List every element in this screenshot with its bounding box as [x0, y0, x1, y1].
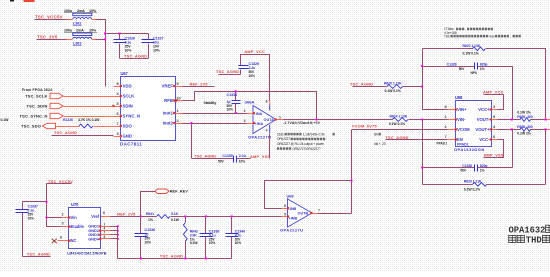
svg-text:8: 8 [104, 235, 106, 239]
inductor L363 [73, 33, 92, 36]
svg-text:U68: U68 [455, 95, 463, 100]
wire agnd [52, 135, 114, 137]
wire ampvcc underline [484, 94, 504, 96]
capacitor C1337 [22, 202, 24, 210]
svg-text:C1335: C1335 [222, 154, 232, 158]
pin 3 stub [114, 136, 121, 138]
resistor R629 [473, 182, 487, 186]
pin 7 [102, 234, 111, 236]
svg-text:EN: EN [457, 137, 463, 142]
wire AMP_VCC [241, 55, 270, 101]
svg-text:L363: L363 [73, 40, 82, 45]
svg-text:VOUT+: VOUT+ [475, 127, 490, 132]
wire V- to AMP_VSS [269, 134, 271, 159]
junction [316, 119, 318, 121]
svg-text:U69: U69 [287, 194, 295, 199]
pin [269, 100, 271, 102]
wire VOUT- [498, 119, 521, 121]
pin 8 [448, 109, 456, 111]
svg-text:820p: 820p [480, 62, 488, 66]
svg-text:Enable: Enable [71, 224, 85, 229]
svg-text:Stability: Stability [204, 101, 217, 105]
pin 7 [448, 139, 456, 141]
svg-text:AMP_VSS: AMP_VSS [250, 155, 270, 159]
wire c1328 left [423, 66, 475, 68]
pin [67, 39, 73, 41]
svg-text:0.1W 0.1%: 0.1W 0.1% [385, 89, 402, 93]
junction [140, 257, 142, 259]
svg-text:1: 1 [177, 109, 179, 113]
svg-text:PPAD1: PPAD1 [457, 142, 469, 146]
svg-text:VCC-: VCC- [479, 137, 490, 142]
svg-text:OPA2727/OPA2227?: OPA2727/OPA2227? [292, 147, 321, 151]
wire to agnd [191, 124, 193, 159]
svg-text:4.7K 1% 0.1W: 4.7K 1% 0.1W [78, 118, 100, 122]
port TSC_SDO [43, 123, 56, 128]
svg-text:1%: 1% [480, 67, 485, 71]
unconnected pin marker SDIN [112, 105, 114, 107]
pin 7 [114, 126, 121, 128]
wire VOUT+ [498, 129, 521, 131]
svg-text:5: 5 [493, 115, 495, 119]
inductor L362 [73, 13, 92, 16]
wire VOUT- edge [547, 119, 550, 121]
wire vcc+ [498, 95, 504, 110]
svg-text:LM4140CCM2.5/NOPB: LM4140CCM2.5/NOPB [67, 252, 107, 256]
resistor R641 [157, 215, 170, 219]
svg-text:GND: GND [123, 134, 133, 139]
regulator U70 box [69, 208, 101, 249]
wire agnd row [192, 158, 234, 160]
junction [421, 167, 423, 169]
pin 2 [448, 129, 456, 131]
svg-text:VOUT-: VOUT- [477, 117, 490, 122]
wire vcc5 label [47, 183, 72, 185]
pin 2 [247, 113, 254, 115]
svg-text:6: 6 [284, 204, 286, 208]
svg-text:Vin: Vin [71, 215, 78, 220]
svg-text:-1.7V&lt;VDac&lt;+0V: -1.7V&lt;VDac&lt;+0V [283, 121, 321, 125]
wire to AMP_VSS [237, 158, 251, 160]
svg-text:100u: 100u [64, 9, 73, 13]
wire c1336 to VOUT+ [512, 130, 514, 168]
svg-text:5: 5 [284, 212, 286, 216]
svg-text:0.1W 1%: 0.1W 1% [517, 110, 531, 114]
capacitor C1339 [205, 217, 207, 234]
svg-text:6: 6 [103, 211, 105, 215]
svg-text:50V: 50V [460, 169, 466, 173]
wire VIN- node [422, 120, 424, 185]
wire Iout2 to +INA [183, 123, 248, 125]
svg-text:TSC_VCC5V: TSC_VCC5V [35, 15, 63, 20]
svg-text:AMP_VCC: AMP_VCC [244, 50, 265, 54]
wire agnd label [219, 74, 241, 76]
capacitor C1329 [239, 66, 249, 69]
wire r629 left [423, 184, 473, 186]
junction [140, 215, 142, 217]
wire vcc- [484, 140, 504, 158]
svg-text:0.1W 1%: 0.1W 1% [517, 131, 531, 135]
svg-text:OPA2227 @ RL=2k output + power: OPA2227 @ RL=2k output + power [277, 142, 325, 146]
pin 1 [448, 119, 456, 121]
op-amp U66A triangle [253, 106, 276, 134]
svg-text:2: 2 [177, 119, 179, 123]
svg-text:7: 7 [116, 122, 118, 126]
wire TSC_2V5 [37, 39, 69, 41]
junction [231, 215, 233, 217]
svg-text:3: 3 [244, 119, 246, 123]
svg-text:AMP_VSS: AMP_VSS [484, 153, 504, 157]
svg-text:OUTB: OUTB [298, 212, 309, 216]
wire VOUT- out [531, 119, 547, 121]
svg-text:9: 9 [177, 82, 179, 86]
svg-text:NP0: NP0 [471, 71, 477, 75]
pin 1 [176, 113, 183, 115]
pin 5 [282, 216, 288, 218]
svg-text:VIN+: VIN+ [457, 107, 467, 112]
svg-text:50V: 50V [218, 160, 224, 164]
wire r629 to VOUT+ [545, 130, 547, 185]
junction [511, 119, 513, 121]
svg-text:SDIN: SDIN [123, 104, 133, 109]
svg-text:TSC_AGND: TSC_AGND [124, 55, 147, 59]
svg-text:RFB: RFB [164, 98, 173, 103]
svg-text:TSC_AGND: TSC_AGND [27, 253, 50, 257]
svg-text:OPA2227U: OPA2227U [248, 134, 271, 139]
svg-text:-INA: -INA [255, 112, 263, 116]
junction [46, 217, 48, 219]
svg-text:DAC7811: DAC7811 [120, 142, 142, 147]
pin [92, 19, 97, 21]
pin 3 [114, 136, 121, 138]
svg-text:R629 1.21K: R629 1.21K [464, 180, 482, 184]
svg-text:8: 8 [444, 105, 446, 109]
junction [117, 230, 119, 232]
svg-text:6: 6 [116, 112, 118, 116]
capacitor C1327 [148, 34, 150, 40]
svg-text:1.13k*(4/3)+1 5k: 1.13k*(4/3)+1 5k [303, 132, 325, 136]
wire c1336 left [423, 167, 475, 169]
svg-text:R622 1.13K: R622 1.13K [463, 44, 481, 48]
pin 6 [58, 240, 69, 242]
pin 10 [176, 100, 183, 102]
svg-text:8: 8 [266, 99, 268, 103]
port TSC_SDIN [50, 103, 63, 108]
wire TSC_VCC5V [35, 19, 69, 21]
junction [235, 90, 237, 92]
svg-text:TSC_AGND: TSC_AGND [54, 131, 77, 135]
pin 2 [62, 217, 69, 219]
svg-text:REF_REV: REF_REV [170, 190, 189, 194]
capacitor C1326 [119, 34, 121, 40]
op-amp U67 DAC7811 box [121, 77, 176, 141]
svg-text:1: 1 [279, 115, 281, 119]
wire r629 right [487, 184, 546, 186]
capacitor C1340 [231, 217, 233, 234]
junction [545, 128, 547, 130]
top edge clipped red bar [24, 0, 35, 2]
port TSC_SYNC_N [50, 113, 63, 118]
wire L363 out [96, 39, 106, 41]
svg-text:10%: 10% [89, 9, 97, 13]
svg-text:820p: 820p [480, 164, 488, 168]
port REF_REV [155, 189, 169, 194]
junction [421, 86, 423, 88]
svg-text:50V: 50V [459, 67, 465, 71]
svg-text:VREF: VREF [162, 84, 174, 89]
junction [351, 180, 353, 182]
power pin 4 V- [269, 125, 271, 134]
svg-text:10%: 10% [239, 160, 245, 164]
power pin 8 V+ [269, 105, 271, 111]
resistor R620 [387, 85, 403, 89]
svg-text:0.1W: 0.1W [190, 241, 199, 245]
svg-text:0.1W 0.1%: 0.1W 0.1% [389, 122, 406, 126]
svg-text:VCOM: VCOM [457, 127, 470, 132]
svg-text:R624 1.13K: R624 1.13K [390, 115, 408, 119]
svg-text:+INB: +INB [289, 216, 298, 220]
wire ref [111, 216, 157, 218]
resistor R624 [392, 118, 408, 122]
junction [117, 238, 119, 240]
svg-text:10%: 10% [28, 216, 34, 220]
wire VOUT+ out [531, 129, 547, 131]
wire to VDD [96, 20, 106, 87]
junction [104, 33, 106, 35]
svg-text:OPA1632: OPA1632 [509, 225, 546, 235]
pin 2 [176, 123, 183, 125]
svg-text:TSC_AGND: TSC_AGND [350, 82, 373, 86]
svg-text:6: 6 [60, 236, 62, 240]
svg-text:OPA2227U: OPA2227U [280, 228, 303, 233]
svg-text:VDD: VDD [123, 84, 132, 89]
wire SYNC_N [64, 116, 114, 118]
svg-text:5m: 5m [374, 132, 379, 136]
wire gnd chain [117, 227, 119, 259]
svg-text:1: 1 [444, 115, 446, 119]
svg-text:AMP_VCC: AMP_VCC [483, 90, 504, 94]
svg-text:REF_2V5: REF_2V5 [190, 82, 208, 86]
wire REF_2V5 [183, 86, 215, 88]
junction [545, 119, 547, 121]
svg-text:0.1W 0.1%: 0.1W 0.1% [464, 187, 481, 191]
junction [421, 65, 423, 67]
pin 5 [492, 119, 498, 121]
svg-text:5.1K: 5.1K [171, 212, 179, 216]
svg-text:TSC_SDO: TSC_SDO [21, 124, 41, 129]
svg-text:3: 3 [61, 221, 63, 225]
pin 4 [114, 96, 121, 98]
svg-text:10%: 10% [145, 241, 151, 245]
svg-text:+INA: +INA [255, 122, 264, 126]
port TSC_SCLK [50, 93, 63, 98]
svg-text:Iout1: Iout1 [163, 111, 174, 116]
wire ref divider [171, 216, 282, 218]
pin 6 vref [102, 216, 111, 218]
pin 9 [176, 86, 183, 88]
svg-text:NC: NC [71, 238, 77, 243]
svg-text:TSC: TSC [444, 34, 451, 38]
svg-text:1%: 1% [480, 169, 485, 173]
svg-text:SDO: SDO [123, 124, 133, 129]
svg-text:OPA2227: OPA2227 [277, 137, 290, 141]
svg-text:10%: 10% [125, 49, 133, 53]
svg-text:U66A: U66A [245, 99, 255, 104]
junction [184, 257, 186, 259]
svg-text:0.1W: 0.1W [1, 118, 10, 122]
pin 6 [282, 208, 288, 210]
capacitor C1328 [475, 63, 478, 70]
junction [205, 257, 207, 259]
junction [119, 33, 121, 35]
wire OUTA to R624 [284, 119, 393, 121]
resistor R643 [185, 217, 187, 223]
capacitor C1335 [234, 156, 237, 163]
svg-text:C1328: C1328 [447, 62, 457, 66]
svg-text:4us: 4us [489, 34, 494, 38]
junction [46, 201, 48, 203]
pin 3 [62, 226, 69, 228]
pin 6 [114, 116, 121, 118]
pin 4 [102, 230, 111, 232]
capacitor C1338 [140, 217, 142, 234]
junction [511, 128, 513, 130]
svg-text:VIN-: VIN- [457, 117, 466, 122]
svg-text:10%: 10% [249, 74, 255, 78]
svg-text:10%: 10% [227, 107, 233, 111]
svg-text:C1334: C1334 [227, 93, 238, 97]
wire SDIN [64, 106, 114, 108]
svg-text:4: 4 [266, 129, 268, 133]
svg-text:VCC+: VCC+ [478, 107, 490, 112]
wire r622 to VOUT- [486, 49, 546, 120]
svg-text:TSC_2V5: TSC_2V5 [37, 34, 58, 39]
junction [191, 122, 193, 124]
wire Iout1 to -INA [183, 113, 248, 115]
svg-text:rail +- 2V: rail +- 2V [374, 142, 387, 146]
wire VIN+ node [423, 49, 448, 110]
wire VCOM [352, 129, 448, 131]
svg-text:10%: 10% [209, 241, 215, 245]
svg-text:Iout2: Iout2 [163, 121, 174, 126]
pin 7 out [312, 213, 318, 215]
svg-text:3: 3 [116, 132, 118, 136]
op-amp U69 triangle [288, 199, 313, 227]
wire 2V5 rail [106, 33, 149, 35]
wire vcc5 down [47, 184, 62, 227]
svg-text:VCOM_0V75: VCOM_0V75 [352, 125, 377, 129]
pin 3 [492, 109, 498, 111]
svg-text:7: 7 [444, 135, 446, 139]
svg-text:100u: 100u [64, 29, 73, 33]
resistor R636 [520, 127, 531, 131]
capacitor C1334 [235, 92, 237, 101]
svg-text:2: 2 [444, 125, 446, 129]
wire OUTB [318, 213, 352, 215]
svg-text:From FPGA 3024: From FPGA 3024 [22, 88, 52, 92]
wire RFB feedback [183, 92, 317, 120]
wire REF_REV [141, 192, 156, 217]
svg-text:U67: U67 [121, 71, 129, 76]
svg-text:U70: U70 [71, 202, 79, 207]
svg-text:10%: 10% [153, 49, 161, 53]
pin 4 [492, 129, 498, 131]
pin 5 [114, 106, 121, 108]
pin 8 [114, 86, 121, 88]
svg-text:TSC_SCLK: TSC_SCLK [25, 94, 47, 99]
svg-text:7: 7 [318, 208, 320, 212]
svg-text:0.1W: 0.1W [171, 218, 180, 222]
wire agnd bl [23, 256, 51, 258]
wire vin [47, 217, 62, 219]
svg-text:8: 8 [116, 82, 118, 86]
top edge clipped mark [10, 0, 14, 2]
wire feedback U69 [265, 181, 352, 209]
svg-text:1: 1 [104, 222, 106, 226]
pin 1 out [277, 119, 284, 121]
pin [67, 19, 73, 21]
diff amp U68 box [456, 101, 492, 147]
svg-text:R636_300: R636_300 [517, 125, 533, 129]
svg-text:-INB: -INB [289, 207, 297, 211]
resistor R622 [472, 47, 485, 51]
svg-text:2mA: 2mA [76, 29, 84, 33]
pin 8 [102, 238, 111, 240]
wire agnd caps [120, 58, 149, 60]
svg-text:R620 1.13K: R620 1.13K [384, 82, 402, 86]
svg-text:1631: 1631 [277, 132, 284, 136]
pin 6 [492, 139, 498, 141]
no-connect X [52, 239, 57, 243]
wire r620 out [403, 86, 423, 88]
svg-text:R635_300: R635_300 [517, 115, 533, 119]
svg-text:2: 2 [244, 109, 246, 113]
junction [421, 119, 423, 121]
svg-text:R1226: R1226 [63, 118, 73, 122]
wire r622 left [423, 48, 473, 50]
pin marker RFB [175, 99, 177, 101]
svg-text:5: 5 [116, 102, 118, 106]
junction [235, 112, 237, 114]
junction [205, 215, 207, 217]
svg-text:10%: 10% [89, 29, 97, 33]
junction [117, 234, 119, 236]
wire c1328 to VOUT- [478, 67, 513, 120]
svg-text:TSC_AGND: TSC_AGND [216, 70, 239, 74]
svg-text:0.1W 0.1%: 0.1W 0.1% [463, 52, 480, 56]
wire agnd EN [386, 139, 448, 141]
svg-text:GND4: GND4 [88, 236, 100, 241]
svg-text:SCLK: SCLK [123, 94, 136, 99]
svg-text:2.2u: 2.2u [239, 154, 247, 158]
wire VCOM vertical [351, 130, 353, 214]
svg-text:2: 2 [61, 212, 63, 216]
wire agnd r620 [353, 86, 387, 88]
pin [92, 39, 97, 41]
svg-text:3: 3 [493, 105, 495, 109]
resistor R1226 [79, 124, 93, 128]
svg-text:THD: THD [526, 236, 542, 246]
svg-text:TSC_SDIN: TSC_SDIN [27, 104, 48, 109]
svg-text:L362: L362 [73, 21, 82, 26]
wire SDO [56, 126, 80, 128]
pin 1 [102, 226, 111, 228]
svg-text:2mA: 2mA [77, 9, 85, 13]
svg-text:OPA1632DGN: OPA1632DGN [454, 147, 485, 152]
svg-text:R641: R641 [146, 212, 154, 216]
wire to VIN- [409, 119, 448, 121]
svg-text:10%: 10% [235, 241, 241, 245]
